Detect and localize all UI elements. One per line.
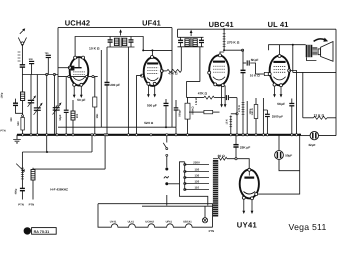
label antenna lead ticks bbox=[18, 52, 21, 61]
label R2 value bbox=[96, 113, 99, 118]
node bus junction x=37.3 bbox=[36, 134, 38, 136]
svg-text:47K Ω: 47K Ω bbox=[198, 91, 208, 95]
wire coupling cont bbox=[250, 63, 255, 74]
trimmer C2 bbox=[29, 58, 34, 74]
wire antenna to input bus bbox=[21, 67, 23, 74]
node L1 bottom junction bbox=[22, 115, 24, 117]
resistor R3 47K plate bbox=[162, 47, 182, 73]
coil L3 T1 primary bbox=[114, 38, 118, 45]
label C20 value bbox=[308, 143, 315, 147]
node bus junction x=107 bbox=[106, 134, 108, 136]
ground chassis symbol bbox=[13, 135, 21, 143]
wire drop x=247.2 bbox=[246, 101, 248, 135]
capacitor C16 coupling bbox=[247, 60, 249, 65]
capacitor C21 50uF bbox=[275, 135, 300, 171]
capacitor C8 200pF bbox=[105, 47, 110, 135]
node R5 top junction bbox=[223, 28, 225, 30]
node T1 grid dot b bbox=[151, 49, 153, 51]
svg-text:RA 70-31: RA 70-31 bbox=[34, 230, 50, 234]
node detector junction bbox=[236, 113, 238, 115]
transformer T1 frame wires bbox=[107, 37, 135, 48]
node bus junction x=237 bbox=[236, 134, 238, 136]
svg-text:50 pF: 50 pF bbox=[77, 98, 85, 102]
label UF41 bbox=[142, 19, 161, 28]
capacitor C15 bbox=[226, 95, 237, 100]
transformer T1 core bbox=[120, 38, 121, 47]
label C17 5KpF bbox=[277, 102, 285, 106]
logo reference box bbox=[32, 228, 57, 235]
node bus junction x=267.4 bbox=[266, 134, 268, 136]
wire UY41 cathode out bbox=[258, 193, 300, 195]
svg-text:UF41: UF41 bbox=[142, 19, 161, 28]
label UL41 bbox=[268, 20, 289, 29]
coil L5 T2 primary bbox=[185, 39, 189, 46]
chassis inner line bbox=[142, 205, 213, 207]
node bus junction x=296.5 bbox=[295, 134, 297, 136]
capacitor C11 bbox=[164, 99, 169, 127]
wire bus drop x=46.7 bbox=[46, 135, 48, 152]
label C8 value bbox=[110, 83, 120, 87]
wire x=302.8 drop bbox=[302, 72, 304, 117]
node bus junction x=128.4 bbox=[127, 134, 129, 136]
transformer T2 tuning arrow bbox=[190, 30, 193, 36]
wire coil feed y=169.1 bbox=[33, 135, 105, 169]
svg-text:300: 300 bbox=[10, 117, 13, 122]
wire diode load y=97.6 bbox=[187, 97, 204, 99]
chassis bottom edge with socket bumps bbox=[98, 204, 213, 228]
label 50 pF bbox=[77, 98, 85, 102]
svg-text:470 K: 470 K bbox=[238, 105, 241, 112]
node bus junction x=176 bbox=[175, 134, 177, 136]
svg-text:500: 500 bbox=[17, 121, 20, 126]
variable capacitor C5 tuning bbox=[34, 75, 43, 135]
node bus junction x=57 bbox=[56, 134, 58, 136]
potentiometer R9 volume 470K bbox=[241, 50, 246, 135]
svg-text:400μ: 400μ bbox=[15, 188, 18, 194]
node bus junction x=247.2 bbox=[246, 134, 248, 136]
svg-text:PTN: PTN bbox=[209, 229, 215, 233]
label socket UCH42 bbox=[145, 221, 154, 224]
node bus junction x=187.5 bbox=[186, 134, 188, 136]
wire T1 to UF41 grid bbox=[135, 37, 173, 57]
label C12 value bbox=[178, 109, 181, 117]
capacitor C14 T2 right bbox=[199, 37, 204, 47]
svg-text:2500 pF: 2500 pF bbox=[272, 115, 283, 119]
capacitor C20 32uF bbox=[301, 131, 336, 139]
node bus junction x=151 bbox=[150, 134, 152, 136]
lamp pilot bbox=[202, 206, 207, 223]
label L1 value bbox=[10, 117, 13, 122]
wire UF41 left pin drop bbox=[137, 76, 143, 135]
wire chassis ground bus bbox=[17, 134, 301, 136]
wire T2 to UBC41 grid bbox=[187, 82, 200, 98]
node bus junction x=46.7 bbox=[46, 134, 48, 136]
node tone junction bbox=[46, 151, 48, 153]
svg-text:PTN: PTN bbox=[0, 130, 5, 133]
label PTN coil bbox=[29, 203, 35, 207]
coil L1 antenna bbox=[21, 75, 25, 116]
svg-text:UBC41: UBC41 bbox=[209, 20, 234, 29]
node bus end junction bbox=[299, 134, 301, 136]
svg-text:130: 130 bbox=[195, 174, 200, 178]
resistor R8 15K bbox=[230, 116, 233, 135]
antenna A1 bbox=[18, 28, 26, 64]
coil L4 T1 secondary bbox=[122, 38, 126, 45]
svg-text:H-F 438KHZ: H-F 438KHZ bbox=[50, 188, 68, 192]
node bus junction x=73 bbox=[72, 134, 74, 136]
wire heater arrow UF41 pin1 bbox=[147, 85, 150, 97]
svg-text:120: 120 bbox=[195, 180, 200, 184]
label R11 value bbox=[251, 108, 254, 115]
wire UBC41 grid line 1 bbox=[220, 86, 223, 108]
svg-text:220V: 220V bbox=[193, 161, 200, 165]
node osc junction b bbox=[86, 76, 88, 78]
svg-text:PTN: PTN bbox=[18, 203, 24, 207]
resistor R11 140 bbox=[254, 98, 258, 135]
svg-text:47K Ω: 47K Ω bbox=[168, 72, 178, 76]
svg-text:UL 41: UL 41 bbox=[268, 20, 289, 29]
svg-text:1 M Ω: 1 M Ω bbox=[195, 98, 198, 105]
resistor R13 60 bbox=[218, 157, 227, 160]
capacitor C4 with lead bbox=[13, 99, 23, 114]
resistor R10 grid stopper bbox=[256, 72, 270, 75]
svg-text:50pF: 50pF bbox=[59, 114, 62, 120]
wire heater arrow UCH42 pin1 bbox=[73, 86, 76, 98]
transformer T4 mains winding bbox=[213, 160, 218, 217]
wire UCH42 grid top cap bbox=[75, 37, 107, 57]
label R1 value bbox=[17, 121, 20, 126]
node OT input junction bbox=[292, 44, 294, 46]
label C22 value bbox=[240, 146, 250, 150]
label R5 value bbox=[227, 41, 240, 45]
resistor R4 bbox=[185, 97, 190, 135]
tube UY41 rectifier bbox=[240, 168, 259, 200]
variable capacitor C6 tuning bbox=[53, 102, 62, 134]
node input junction 1 bbox=[46, 73, 48, 75]
svg-text:500pF: 500pF bbox=[178, 109, 181, 117]
svg-text:5KpF: 5KpF bbox=[277, 102, 285, 106]
svg-text:15K: 15K bbox=[96, 113, 99, 118]
svg-text:10 K Ω: 10 K Ω bbox=[89, 47, 100, 51]
label R13 value bbox=[218, 154, 226, 158]
label R6 47K bbox=[198, 91, 208, 95]
wire T3 bottom bbox=[307, 57, 317, 60]
wire AVC line y=127.2 bbox=[58, 126, 176, 128]
label R9 value bbox=[238, 105, 241, 112]
svg-text:500 pF: 500 pF bbox=[147, 104, 157, 108]
wire heater arrow UL41 pin1 bbox=[273, 86, 276, 97]
svg-text:15 K: 15 K bbox=[226, 119, 229, 124]
node tap 150 bbox=[184, 170, 209, 172]
wire screen line y=72.4 bbox=[293, 71, 336, 73]
node bus junction x=94.8 bbox=[94, 134, 96, 136]
wire input drop x=46.7 bbox=[46, 75, 48, 135]
wire bus drop to tone bbox=[91, 135, 93, 152]
variable capacitor C4b padder bbox=[28, 75, 36, 135]
node tap 110 bbox=[184, 188, 209, 190]
wire heater arrow UL41 pin2 bbox=[280, 87, 283, 98]
label Vega 511 bbox=[289, 222, 327, 232]
capacitor C10 T1 right bbox=[129, 37, 134, 48]
wire T1 drop x=128.4 bbox=[127, 47, 129, 135]
node tap 220V bbox=[184, 163, 209, 165]
capacitor C23 tone bbox=[20, 188, 25, 199]
capacitor C18 2500pF bbox=[263, 110, 269, 135]
label 100p bbox=[249, 108, 252, 114]
svg-text:12 K Ω: 12 K Ω bbox=[314, 113, 325, 117]
wire R5 junction to coupling bbox=[224, 49, 243, 51]
wire diode load cont bbox=[214, 97, 225, 99]
label R10 10K bbox=[250, 74, 260, 78]
svg-text:140 Ω: 140 Ω bbox=[251, 108, 254, 115]
coil L7 bbox=[31, 168, 35, 200]
node tap 130 bbox=[184, 176, 209, 178]
label C23 value bbox=[15, 188, 18, 194]
label socket UL41 bbox=[128, 221, 135, 224]
wire tap rail bbox=[184, 162, 186, 190]
trimmer C3 bbox=[45, 52, 51, 75]
wire drop x=54.4 bbox=[53, 75, 55, 135]
label tap 130 bbox=[195, 174, 200, 178]
wire input bus y=74.5 bbox=[22, 74, 58, 76]
coil L6 T2 secondary bbox=[193, 39, 197, 46]
wire detector drop x=237 bbox=[236, 98, 238, 135]
potentiometer R14 tone bbox=[16, 152, 25, 188]
label R3 value bbox=[168, 72, 178, 76]
tube UBC41 bbox=[208, 54, 229, 87]
node bus junction x=66.2 bbox=[65, 134, 67, 136]
label socket UBC41 bbox=[183, 221, 192, 224]
capacitor C12 bbox=[174, 100, 179, 127]
label IF frequency bbox=[50, 188, 68, 192]
svg-text:200: 200 bbox=[76, 113, 79, 118]
svg-text:32μF: 32μF bbox=[308, 143, 315, 147]
svg-text:UCH42: UCH42 bbox=[145, 221, 154, 224]
node bus junction x=136.5 bbox=[135, 134, 137, 136]
chassis outline with tube sockets bbox=[98, 204, 213, 228]
node bus junction x=22.6 bbox=[22, 134, 24, 136]
wire AVC drop x=172 bbox=[171, 28, 173, 128]
transformer T1 tuning arrow bbox=[119, 29, 122, 35]
wire oscillator line y=76.6 bbox=[58, 76, 98, 78]
transformer T2 core bbox=[190, 38, 191, 47]
switch S1 mains bbox=[163, 135, 168, 171]
wire UL41 plate top bbox=[269, 45, 306, 55]
label C21 value bbox=[285, 153, 292, 157]
node bus junction x=31 bbox=[30, 134, 32, 136]
svg-text:60 Ω: 60 Ω bbox=[218, 154, 226, 158]
svg-text:UBC41: UBC41 bbox=[183, 221, 192, 224]
label L2 value bbox=[76, 113, 79, 118]
label tap 120 bbox=[195, 180, 200, 184]
label left edge rotated bbox=[1, 92, 4, 98]
transformer T3 output bbox=[306, 45, 318, 57]
label socket UF41 bbox=[166, 221, 173, 224]
wire tone line y=152 bbox=[22, 151, 92, 153]
wire cathode drop x=263.4 bbox=[262, 98, 264, 135]
label C18 value bbox=[272, 115, 283, 119]
logo publisher circle bbox=[24, 227, 31, 235]
node bus junction x=263.4 bbox=[262, 134, 264, 136]
capacitor C9 T1 left bbox=[108, 37, 113, 48]
speaker flux arrow bbox=[314, 38, 329, 42]
node T1 grid dot a bbox=[142, 49, 144, 51]
label UBC41 bbox=[209, 20, 234, 29]
tube UCH42 bbox=[68, 56, 88, 86]
label PTN tone bbox=[18, 203, 24, 207]
node bus junction x=166.8 bbox=[166, 134, 168, 136]
resistor R7 diode zigzag bbox=[204, 96, 214, 99]
node bus junction x=105.1 bbox=[104, 134, 106, 136]
label tap 220V bbox=[193, 161, 200, 165]
transformer T2 frame wires bbox=[178, 29, 204, 47]
svg-text:P: P bbox=[25, 229, 29, 235]
wire coupling y=63 bbox=[243, 62, 247, 64]
resistor R6 grid box bbox=[189, 110, 220, 113]
wire heater arrow UCH42 pin2 bbox=[80, 86, 83, 98]
node bus junction x=243 bbox=[242, 134, 244, 136]
tube UL41 bbox=[268, 55, 291, 87]
label tap 150 bbox=[195, 168, 200, 172]
wire AVC to bus x=176 bbox=[175, 127, 177, 135]
wire osc feed x=101.3 bbox=[100, 50, 102, 127]
wire heater arrow UY41 pin1 bbox=[242, 199, 245, 214]
label UY41 bbox=[237, 221, 258, 230]
label PTN transformer bbox=[209, 229, 215, 233]
node bus junction x=256 bbox=[255, 134, 257, 136]
svg-text:52H Ω: 52H Ω bbox=[144, 121, 154, 125]
capacitor C17 cathode bypass bbox=[289, 99, 294, 135]
wire B+ right vertical bbox=[335, 29, 337, 135]
node HV junction bbox=[235, 158, 237, 160]
label UCH42 bbox=[65, 18, 91, 27]
label C7 value bbox=[59, 114, 62, 120]
speaker LS1 bbox=[318, 42, 333, 62]
wire OT left vertical bbox=[292, 45, 294, 73]
svg-text:25K pF: 25K pF bbox=[240, 146, 250, 150]
label tap 110 bbox=[195, 186, 200, 190]
svg-text:PTN: PTN bbox=[29, 203, 35, 207]
label 10K bbox=[89, 47, 100, 51]
resistor R2 oscillator bbox=[93, 77, 97, 135]
node tap 120 bbox=[184, 182, 209, 184]
svg-text:110: 110 bbox=[195, 186, 200, 190]
wire chassis stub x=166.8 bbox=[166, 195, 168, 206]
label 1M bbox=[195, 98, 198, 105]
wire heater arrow UF41 pin2 bbox=[153, 85, 156, 97]
svg-text:50μF: 50μF bbox=[285, 153, 292, 157]
resistor R5 270K bbox=[223, 29, 226, 50]
capacitor C1 antenna series bbox=[20, 65, 25, 67]
svg-text:150: 150 bbox=[195, 168, 200, 172]
wire T2 right drop bbox=[199, 47, 201, 82]
node bus junction x=92 bbox=[91, 134, 93, 136]
node AVC junction bbox=[165, 126, 167, 128]
label R12 value bbox=[314, 113, 325, 117]
label socket UY41 bbox=[110, 221, 117, 224]
svg-text:UF41: UF41 bbox=[166, 221, 173, 224]
svg-text:Vega 511: Vega 511 bbox=[289, 222, 327, 232]
resistor R12 12K bbox=[303, 116, 336, 119]
wire top rail of UCH42 stage bbox=[58, 27, 172, 29]
label R4 value bbox=[192, 106, 195, 114]
svg-text:500KΩ: 500KΩ bbox=[192, 106, 195, 114]
wire rectifier output x=299.7 bbox=[299, 135, 301, 195]
wire left tuned-circuit drop x=58 bbox=[57, 28, 59, 106]
node R5 bottom junction bbox=[223, 49, 225, 51]
capacitor C7 bbox=[64, 77, 69, 135]
label 500 pF bbox=[147, 104, 157, 108]
svg-text:UCH42: UCH42 bbox=[65, 18, 91, 27]
wire UBC41 top cap link bbox=[220, 52, 224, 54]
node bus junction x=291.8 bbox=[291, 134, 293, 136]
label C16 5KpF bbox=[251, 58, 259, 62]
tube UF41 bbox=[141, 56, 164, 86]
node osc junction a bbox=[68, 76, 70, 78]
node coupling corner bbox=[242, 49, 244, 51]
svg-text:UY41: UY41 bbox=[110, 221, 117, 224]
wire UBC41 grid line 2 bbox=[224, 86, 227, 108]
wire mains left bbox=[180, 162, 208, 206]
svg-text:5KpF: 5KpF bbox=[251, 58, 259, 62]
svg-text:270 K Ω: 270 K Ω bbox=[227, 41, 240, 45]
wire HV feed cont bbox=[227, 159, 249, 168]
capacitor C22 25KpF bbox=[233, 135, 238, 159]
resistor R1 bbox=[21, 117, 24, 135]
wire HV feed y=158.7 bbox=[213, 158, 218, 160]
svg-text:UY41: UY41 bbox=[237, 221, 258, 230]
svg-text:100p: 100p bbox=[1, 92, 4, 98]
svg-text:UL41: UL41 bbox=[128, 221, 135, 224]
capacitor C13 T2 left bbox=[178, 37, 183, 47]
node input junction 2 bbox=[53, 73, 55, 75]
node bus junction x=230.8 bbox=[230, 134, 232, 136]
label R8 value bbox=[226, 119, 229, 124]
wire UL41 plate side drop bbox=[289, 71, 296, 135]
mains plug terminal bbox=[165, 182, 179, 185]
coil L2 oscillator bbox=[71, 100, 75, 135]
wire R10 to UL41 bbox=[268, 73, 271, 75]
wire UCH42 left pin to x58 bbox=[58, 67, 70, 69]
node osc junction c bbox=[92, 76, 94, 78]
mains cord squiggle bbox=[164, 176, 169, 178]
label PTN left edge bbox=[0, 130, 5, 133]
wire HT rail (B+) top bbox=[178, 28, 337, 30]
label 52H bbox=[144, 121, 154, 125]
wire junction arm bbox=[231, 113, 237, 115]
wire heater arrow UY41 pin2 bbox=[251, 200, 254, 214]
svg-text:200 pF: 200 pF bbox=[110, 83, 120, 87]
